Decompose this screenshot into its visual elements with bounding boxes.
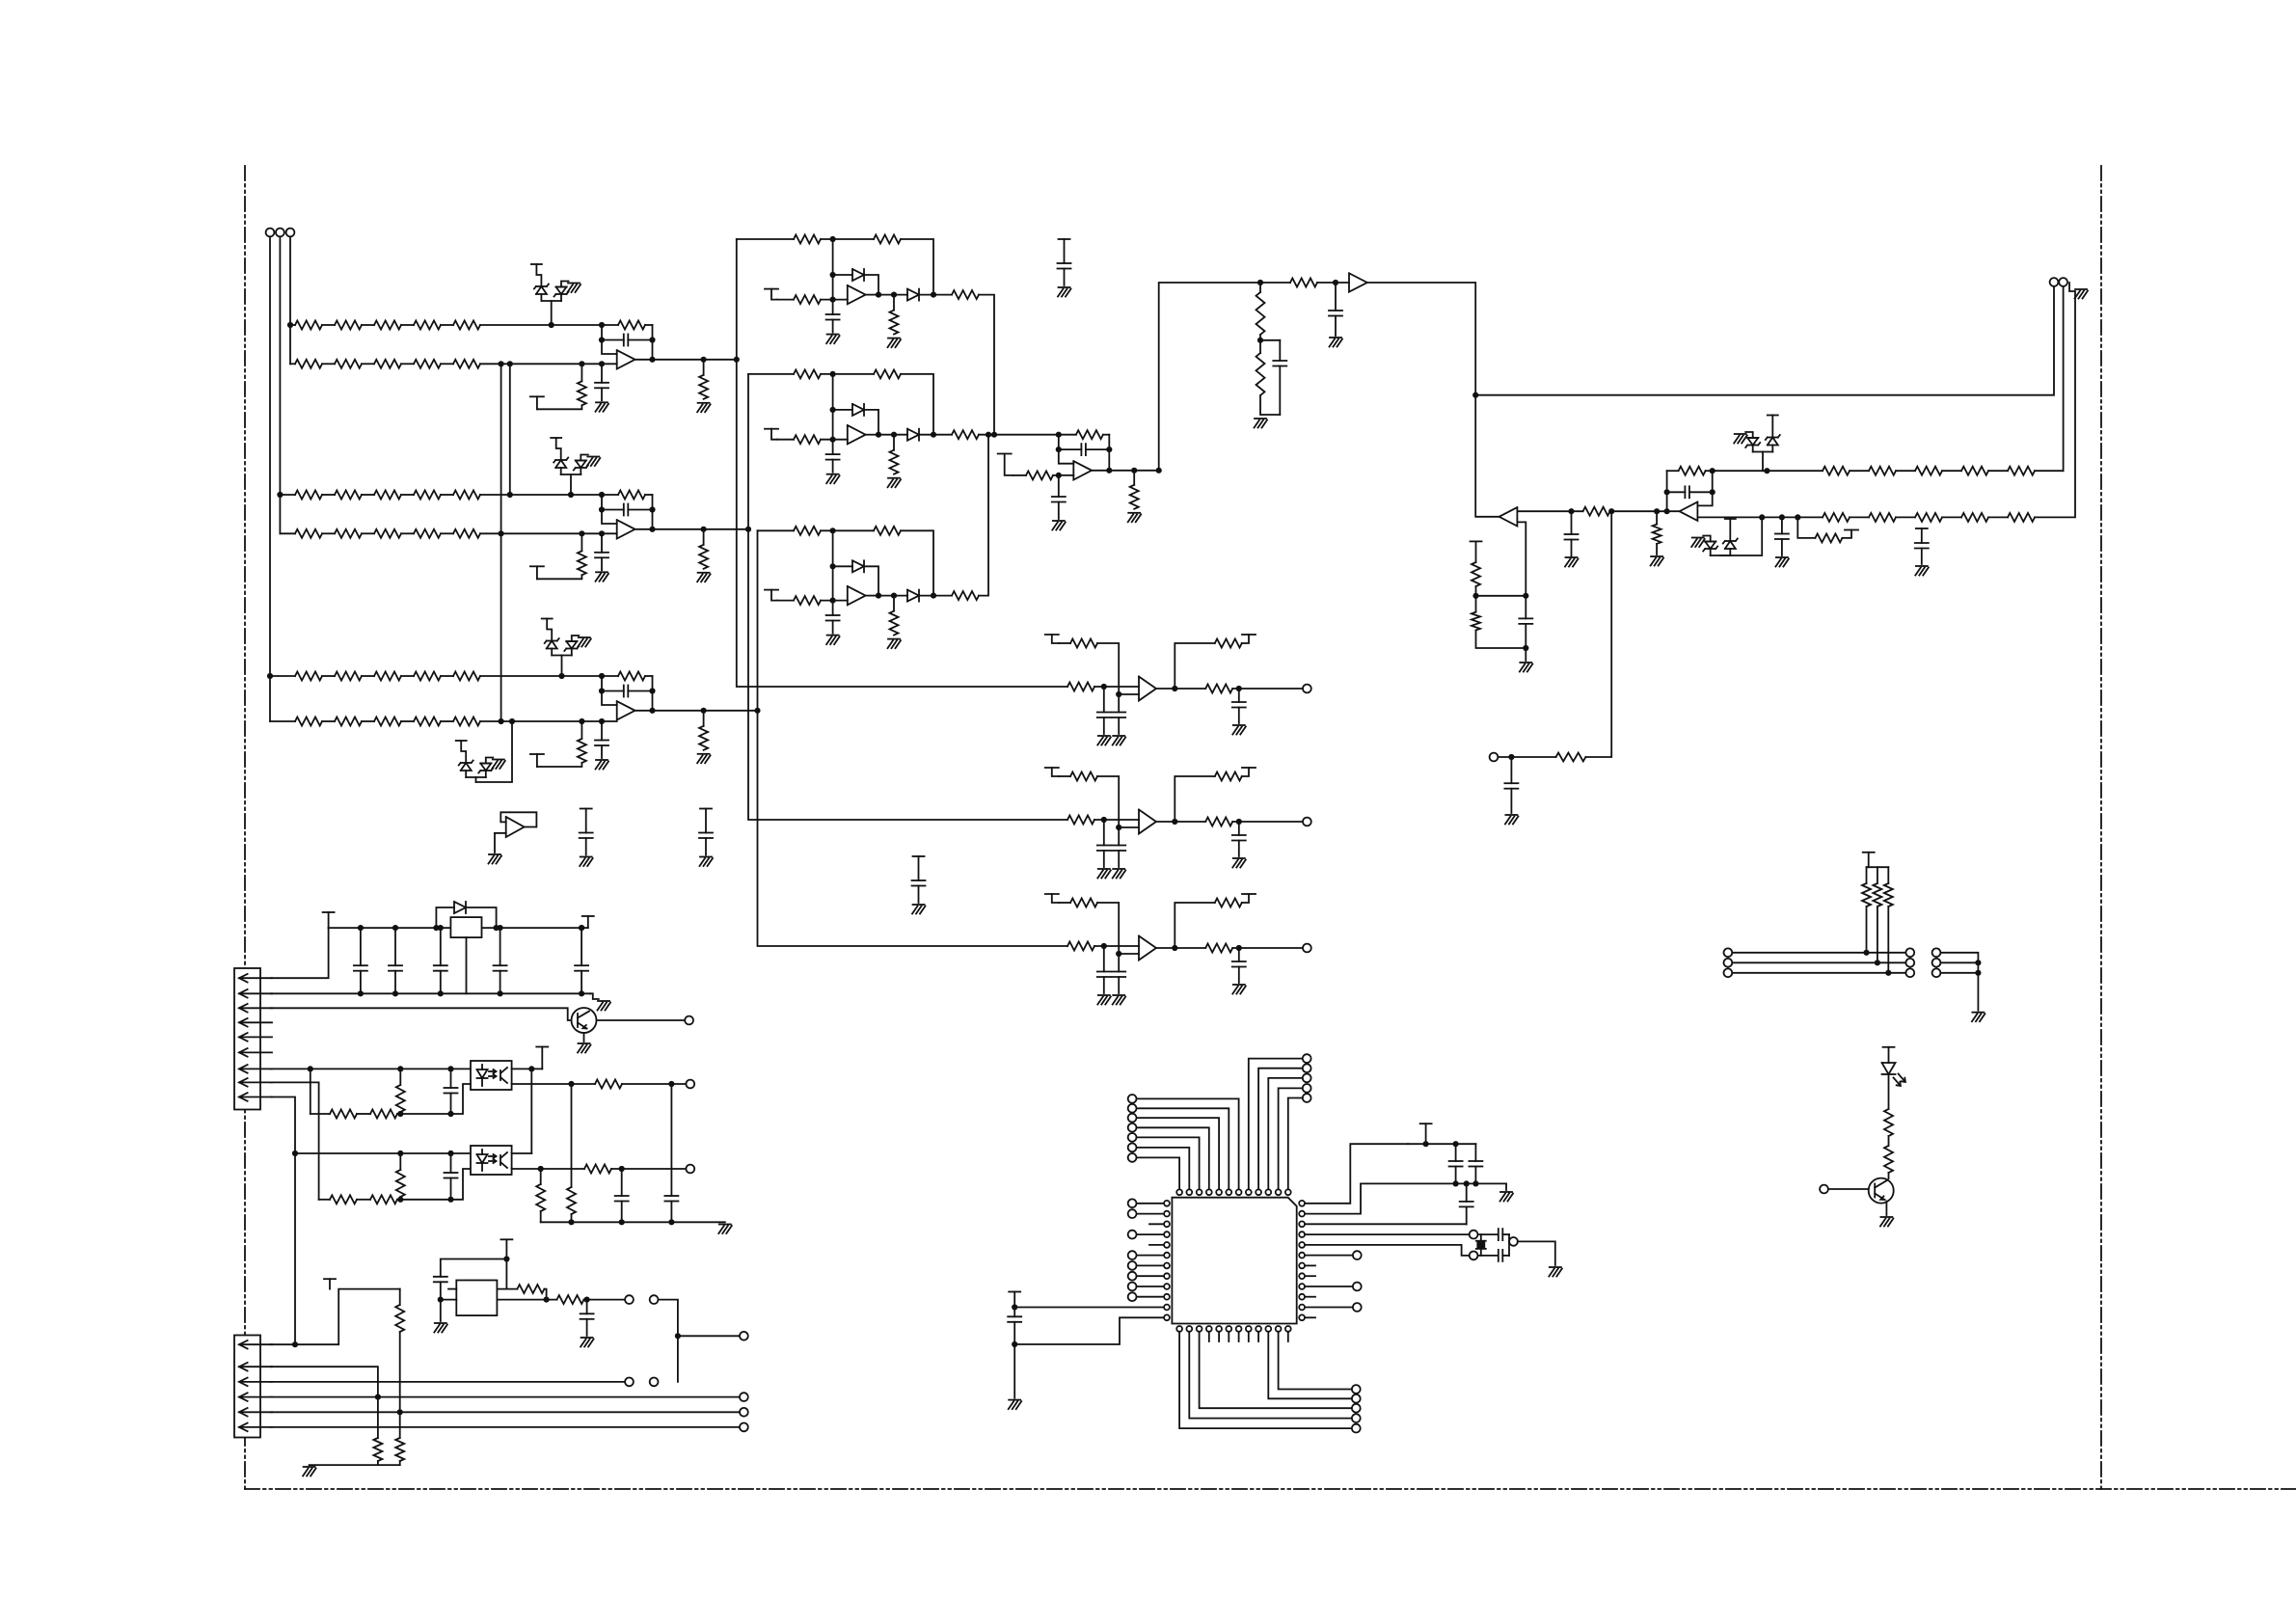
junction rail OC1 cap <box>668 1219 674 1225</box>
power tick cap1 <box>581 809 592 833</box>
wire OC1 pd drop b <box>571 1214 573 1222</box>
wire stage3 output <box>635 710 652 712</box>
terminal U1 left 6 <box>1128 1251 1137 1259</box>
connector J1 pin 2 arrow <box>239 989 272 998</box>
terminal OC2 output <box>686 1165 694 1174</box>
U1 bottom pin 5 <box>1216 1326 1222 1332</box>
junction stage3 fb output <box>649 708 655 714</box>
wire output net long <box>1475 286 2054 395</box>
junction rail1 cap4 <box>498 925 503 931</box>
resistor OC1 out pulldown <box>567 1187 576 1214</box>
wire U1 bottom pin 7 stub <box>1238 1332 1240 1341</box>
wire Q2 emitter <box>1885 1202 1887 1216</box>
output terminal comparator2 <box>1303 818 1311 826</box>
capacitor power rail C5 <box>575 928 588 993</box>
capacitor comparator1 input B <box>1112 694 1125 734</box>
wire rectifier2 rail right <box>901 374 933 435</box>
junction OC2 cap bottom <box>447 1197 453 1203</box>
capacitor comparator2 output <box>1232 822 1246 856</box>
wire J2 pda bot <box>399 1461 401 1465</box>
wire rectifier2 input lead a <box>777 439 794 441</box>
junction bus C stage3 out <box>754 708 760 714</box>
U1 bottom pin 4 <box>1206 1326 1212 1332</box>
capacitor stage1 input <box>595 364 608 400</box>
terminal rowC <box>740 1408 748 1417</box>
wire J2 p2 down <box>377 1397 379 1438</box>
resistor LED R1 <box>1884 1109 1893 1136</box>
junction comparator3 out cap <box>1236 945 1242 951</box>
wire rectifier1 rail mid <box>821 238 874 240</box>
wire J2 pin4 row <box>271 1396 740 1398</box>
ground Q2 <box>1880 1217 1894 1227</box>
junction buffer divider tap <box>1257 280 1263 285</box>
connector J1 <box>234 968 260 1110</box>
terminal U1 bottom 10 <box>1352 1394 1361 1403</box>
wire U1 r2 <box>1306 1183 1507 1213</box>
junction L2 fb cap L <box>1664 489 1670 495</box>
capacitor crystal load A <box>1499 1229 1503 1240</box>
terminal row3 left <box>1724 968 1733 977</box>
junction stage1 RC node <box>579 361 584 366</box>
resistor rectifier1 rail B <box>874 235 901 244</box>
junction rectifier1 load <box>891 292 897 298</box>
power tick REG2 <box>500 1239 512 1288</box>
resistor rectifier2 output <box>952 430 979 439</box>
junction rail2 cap2 <box>392 990 398 996</box>
terminal U1 bottom 11 <box>1352 1385 1361 1394</box>
resistor stage1 to stub <box>578 381 586 405</box>
ground cap4 <box>1058 287 1071 297</box>
wire L2 load lead a <box>1656 511 1658 524</box>
border frame bottom chain line <box>245 1488 2296 1490</box>
TVS diode pair stage2 ground <box>587 457 601 467</box>
TVS diode pair stage1 <box>531 264 569 325</box>
wire U1 bottom pin 5 stub <box>1218 1332 1220 1341</box>
wire J1 pin7 row <box>271 1068 471 1069</box>
wire stage3 output to bus C <box>704 710 758 712</box>
wire L1 div lead3 <box>1476 631 1526 649</box>
wire OC1 cap drop <box>670 1084 672 1196</box>
wire J1 pin3 to Q1 base <box>271 1008 572 1020</box>
wire U1 r11 <box>1306 1307 1353 1309</box>
wire stage2 row1 seg4 <box>441 494 453 496</box>
terminal U1 top 2 <box>1128 1144 1137 1152</box>
resistor row2 chain R5 <box>2008 513 2035 522</box>
junction stage2 feedback node A <box>599 492 605 498</box>
terminal crystal out <box>1509 1237 1518 1246</box>
capacitor L2 feedback <box>1667 486 1713 498</box>
wire REG2 left top stub <box>448 1288 456 1290</box>
resistor rectifier1 load <box>890 311 899 335</box>
resistor comparator1 pullup <box>1070 639 1097 648</box>
wire OC1 lower lead <box>311 1113 330 1115</box>
wire bus A <box>737 239 1067 687</box>
wire comparator3 output b <box>1232 947 1303 949</box>
wire REG2 jumper link <box>659 1300 678 1382</box>
U1 top pin 3 <box>1197 1189 1202 1195</box>
capacitor summing input <box>1052 475 1066 519</box>
wire stage1 fb node down <box>602 325 617 354</box>
wire pullup 3 drop <box>1887 907 1889 973</box>
resistor stage3 row2 R2 <box>335 717 362 726</box>
wire comparator1 pullup lead <box>1059 642 1070 644</box>
junction stage3 row2 TVS riser <box>509 718 515 724</box>
U1 left pin 12 <box>1164 1314 1170 1320</box>
wire bus stage row2 link A <box>500 364 502 721</box>
wire rectifier3 out a <box>866 595 878 597</box>
wire rectifier3 diode to output <box>864 566 878 595</box>
resistor rectifier3 rail B <box>874 527 901 535</box>
wire U1 r5 <box>1306 1245 1470 1256</box>
resistor buffer input <box>1290 279 1317 287</box>
junction stage1 fb output <box>649 357 655 363</box>
wire stage2 row1 lead <box>280 494 295 496</box>
ground rectifier1 load <box>888 338 902 348</box>
junction OC2 pd bottom <box>397 1197 403 1203</box>
junction stage3 fb cap left <box>599 688 605 693</box>
op-amp comparator2 <box>1139 810 1156 834</box>
TVS diode pair L2 upper <box>1745 416 1780 472</box>
wire row1 chain seg1 <box>1850 470 1869 472</box>
wire L1 div gnd lead <box>1525 648 1526 661</box>
wire opto ground rail <box>541 1221 725 1223</box>
wire L2 fb left <box>1666 471 1668 511</box>
wire LED R2 to Q2 <box>1888 1173 1890 1178</box>
junction comparator2 lower input <box>1116 825 1121 830</box>
capacitor buffer divider <box>1273 340 1286 415</box>
U1 right pin 10 <box>1299 1294 1305 1300</box>
wire rectifier3 rail right <box>901 530 933 595</box>
U1 left pin 4 <box>1164 1232 1170 1237</box>
wire buffer output <box>1367 283 1475 395</box>
junction rectifier2 load <box>891 432 897 438</box>
wire crystal row2 <box>1478 1255 1498 1257</box>
junction summing fb node <box>1056 432 1062 438</box>
resistor rectifier3 output <box>952 591 979 600</box>
wire stage1 row1 seg4 <box>441 324 453 326</box>
wire J2 pin1 <box>271 1289 400 1345</box>
ground rectifier1 input cap <box>826 335 840 344</box>
junction summing output fb <box>1106 468 1112 474</box>
wire U1 bottom pin 3 <box>1200 1332 1352 1408</box>
terminal U1 top 12 <box>1303 1094 1311 1102</box>
wire rectifier3 out to summing <box>979 435 988 596</box>
ground comparator3 cap B <box>1113 995 1126 1005</box>
wire row1 chain end <box>2035 470 2064 472</box>
resistor LED R2 <box>1884 1146 1893 1173</box>
resistor stage2 to stub <box>578 551 586 575</box>
wire row1 chain seg2 <box>1896 470 1915 472</box>
U1 bottom pin 9 <box>1256 1326 1261 1332</box>
capacitor power rail C1 <box>354 928 367 993</box>
terminal U1 top 6 <box>1128 1104 1137 1113</box>
resistor stage2 row2 R5 <box>453 529 480 538</box>
wire stage2 row1 to feedback node <box>480 494 602 496</box>
connector J2 pin 6 arrow <box>239 1423 272 1432</box>
junction buffer divider mid <box>1257 338 1263 343</box>
junction comparator3 lower input <box>1116 951 1121 957</box>
wire stage1 row2 to op-amp <box>480 363 617 365</box>
junction g2 row2 <box>1975 960 1981 965</box>
U1 left pin 11 <box>1164 1305 1170 1311</box>
wire U1 r3 <box>1306 1223 1467 1225</box>
wire rectifier1 F down <box>832 239 834 300</box>
ground comparator2 cap B <box>1113 869 1126 879</box>
junction stage1 fb cap right <box>649 337 655 342</box>
wire L1 row <box>1517 510 1582 512</box>
wire stage1 row2 lead <box>290 363 295 365</box>
wire stage1 fb to output <box>652 325 654 360</box>
wire U1 r4 <box>1306 1233 1470 1235</box>
resistor summing feedback <box>1076 430 1103 439</box>
ground power rail2 <box>598 1001 611 1011</box>
wire rectifier3 load lead <box>893 596 895 611</box>
wire signal row 1 <box>1732 952 1905 954</box>
U1 right pin 11 <box>1299 1305 1305 1311</box>
junction stage2 cap node <box>599 530 605 536</box>
connector J1 pin 1 arrow <box>239 974 272 983</box>
op-amp buffer <box>1349 273 1367 291</box>
crystal X1 <box>1476 1234 1486 1256</box>
wire OC1 output b <box>622 1083 686 1085</box>
resistor pullup 3 <box>1884 883 1893 907</box>
wire J1 pin8 jog <box>271 1082 319 1199</box>
wire comparator3 out pullup riser <box>1175 903 1215 948</box>
wire stage1 row2 seg3 <box>401 363 414 365</box>
resistor stage2 row1 R4 <box>414 491 441 500</box>
wire rail2 gnd jog <box>590 993 599 999</box>
terminal mix out <box>740 1332 748 1340</box>
junction rectifier3 diode output <box>876 593 881 599</box>
wire OC1 pd leads b <box>399 1112 401 1114</box>
op-amp follower with feedback box <box>500 812 536 837</box>
wire comparator2 output b <box>1232 821 1303 823</box>
resistor stage1 row2 R4 <box>414 360 441 368</box>
TVS diode pair L2 upper ground <box>1734 434 1747 444</box>
junction stage2 RC node <box>579 530 584 536</box>
junction rectifier2 diode tap <box>830 407 836 413</box>
terminal crystal row1 <box>1470 1231 1478 1239</box>
wire comparator2 pullup to input <box>1097 776 1139 827</box>
wire crystal out stub <box>1509 1240 1510 1242</box>
wire Q1 emitter <box>583 1033 585 1042</box>
wire stage3 row2 seg4 <box>441 720 453 722</box>
terminal g2 row3 <box>1932 968 1941 977</box>
transistor Q2 <box>1869 1178 1894 1204</box>
wire OC link vertical <box>530 1069 532 1153</box>
junction comparator2 out pullup <box>1172 819 1177 825</box>
wire stage3 output 2 <box>653 710 704 712</box>
capacitor power rail C2 <box>389 928 402 993</box>
U1 bottom pin 3 <box>1197 1326 1202 1332</box>
capacitor power rail C4 <box>494 928 507 993</box>
wire U1 left pin 3 stub <box>1149 1223 1164 1225</box>
op-amp stage3 <box>617 701 635 719</box>
capacitor comparator2 input B <box>1112 827 1125 867</box>
junction rectifier1 F <box>830 236 836 242</box>
jumper terminal REG2 b <box>650 1295 659 1304</box>
wire stage3 RC lead <box>581 721 582 739</box>
wire stage2 row2 seg3 <box>401 532 414 534</box>
diode rectifier1 output <box>907 289 919 301</box>
junction J2 rowB tap <box>375 1394 381 1400</box>
resistor stage3 row1 R3 <box>374 672 401 681</box>
U1 right pin 6 <box>1299 1253 1305 1259</box>
U1 left pin 9 <box>1164 1284 1170 1289</box>
TVS diode pair stage3 lower <box>456 741 494 782</box>
junction stage3 TVS row1 <box>558 673 564 679</box>
wire rectifier3 F down <box>832 530 834 600</box>
wire stage3 row1 seg2 <box>362 675 374 677</box>
op-amp rectifier2 <box>848 425 866 444</box>
junction rail1 cap2 <box>392 925 398 931</box>
capacitor rectifier1 input <box>826 300 840 333</box>
wire rectifier2 load lead <box>893 435 895 450</box>
capacitor stage2 input <box>595 533 608 570</box>
junction rectifier3 load <box>891 593 897 599</box>
resistor stage1 row1 R2 <box>335 321 362 330</box>
wire U1 cap rail <box>1408 1143 1475 1145</box>
junction rail1 end <box>579 925 584 931</box>
junction REG2 out <box>544 1297 550 1303</box>
wire U1 top pin 5 <box>1137 1118 1220 1189</box>
U1 right pin 2 <box>1299 1211 1305 1217</box>
resistor OC2 series B <box>370 1195 397 1204</box>
resistor stage3 row1 R1 <box>295 672 322 681</box>
resistor row1 chain R3 <box>1915 467 1942 475</box>
wire comparator2 input <box>1094 819 1139 821</box>
resistor row1 chain R5 <box>2008 467 2035 475</box>
wire bus C <box>758 530 1068 946</box>
wire stage1 row1 lead <box>290 324 295 326</box>
wire REG2 out bot <box>497 1299 556 1301</box>
wire rectifier2 F down <box>832 374 834 440</box>
wire U1 bottom pin 8 stub <box>1248 1332 1250 1341</box>
op-amp L2 <box>1680 502 1698 521</box>
U1 bottom pin 6 <box>1226 1326 1231 1332</box>
wire power rail2 <box>271 992 590 994</box>
wire U1 top pin 11 <box>1279 1088 1303 1189</box>
wire signal row 3 <box>1732 972 1905 974</box>
op-amp rectifier1 <box>848 285 866 304</box>
wire J1 pin1 to rail <box>271 928 329 978</box>
wire OC2 lower to cathode <box>397 1169 471 1200</box>
wire rectifier1 load lead <box>893 295 895 311</box>
wire stage2 row2 seg4 <box>441 532 453 534</box>
wire L1 branch down <box>1585 511 1611 757</box>
wire stage2 row2 seg1 <box>322 532 335 534</box>
wire U1 bottom pin 6 stub <box>1228 1332 1229 1341</box>
junction J2 rowC tap <box>397 1409 403 1415</box>
wire REG2 cap link <box>441 1259 507 1277</box>
junction stage3 fb cap right <box>649 688 655 693</box>
ground follower <box>489 854 502 864</box>
ground U1 caps <box>1500 1192 1514 1202</box>
power tick rail1 right <box>582 916 594 928</box>
capacitor summing feedback <box>1059 444 1110 455</box>
capacitor OC2 <box>445 1153 458 1200</box>
junction lower rail a <box>1453 1180 1459 1186</box>
resistor stage2 feedback <box>618 491 645 500</box>
wire J2 pua bot <box>399 1332 401 1438</box>
wire U1 top pin 1 <box>1137 1157 1180 1189</box>
junction stage3 output load <box>701 708 707 714</box>
wire stage1 RC lead <box>581 364 582 381</box>
resistor summing load <box>1130 485 1139 509</box>
wire g2 row3 <box>1940 972 1978 974</box>
resistor L1 divider upper <box>1472 562 1480 586</box>
terminal U1 bottom 1 <box>1352 1424 1361 1433</box>
junction OC1 row a <box>308 1066 313 1071</box>
junction comparator2 out cap <box>1236 819 1242 825</box>
junction OC1 out pd <box>568 1081 574 1087</box>
resistor row2 stub <box>1815 533 1842 542</box>
op-amp summing <box>1073 461 1092 479</box>
resistor stage3 row2 R1 <box>295 717 322 726</box>
capacitor comparator1 output <box>1232 689 1246 723</box>
wire U1 bottom pin 2 <box>1189 1332 1352 1418</box>
capacitor stage1 feedback <box>602 335 653 346</box>
junction rectifier3 diode tap <box>830 563 836 569</box>
wire summing stub <box>1013 474 1026 476</box>
wire summing riser <box>1159 283 1260 471</box>
ground U1 cap block <box>1009 1400 1022 1410</box>
U1 bottom pin 7 <box>1236 1326 1242 1332</box>
U1 left pin 3 <box>1164 1221 1170 1227</box>
junction L1 div node b <box>1523 593 1528 599</box>
resistor stage1 row1 R4 <box>414 321 441 330</box>
ground branch cap <box>1505 815 1519 825</box>
U1 right pin 7 <box>1299 1263 1305 1269</box>
resistor OC2 pulldown <box>396 1170 405 1197</box>
wire rectifier2 out c <box>919 434 952 436</box>
resistor OC2 series A <box>330 1195 357 1204</box>
junction rail OC2 cap <box>619 1219 625 1225</box>
wire U1 left pin 9 <box>1137 1286 1164 1287</box>
wire Q1 collector <box>597 1019 686 1021</box>
ground comparator2 cap A <box>1097 869 1111 879</box>
U1 top pin 12 <box>1285 1189 1291 1195</box>
U1 bottom pin 10 <box>1265 1326 1271 1332</box>
junction rectifier1 diode output <box>876 292 881 298</box>
wire U1 left pin 11 <box>1014 1307 1163 1309</box>
wire OC1 lower seg <box>357 1113 370 1115</box>
U1 top pin 10 <box>1265 1189 1271 1195</box>
junction cap rail b <box>1453 1141 1459 1147</box>
wire summing B down <box>1108 435 1110 471</box>
wire OC2 pd leads b <box>399 1197 401 1200</box>
ground comparator3 out cap <box>1232 985 1246 994</box>
capacitor comparator3 output <box>1232 948 1246 983</box>
wire stage2 row1 seg3 <box>401 494 414 496</box>
connector J2 pin 2 arrow <box>239 1363 272 1371</box>
U1 bottom pin 12 <box>1285 1326 1291 1332</box>
terminal U1 top 1 <box>1128 1153 1137 1162</box>
resistor stage1 row2 R2 <box>335 360 362 368</box>
resistor J2 pulldown A <box>395 1438 404 1461</box>
capacitor crystal load B <box>1499 1250 1503 1261</box>
diode rectifier3 output <box>907 590 919 602</box>
wire L1 div lead2 <box>1475 596 1477 612</box>
ground stage1 output load <box>697 403 711 413</box>
wire OC2 input row <box>295 1152 471 1154</box>
wire U1 top pin 8 <box>1249 1059 1303 1189</box>
junction L2 row1 TVS <box>1764 468 1769 474</box>
junction lower rail c <box>1472 1180 1478 1186</box>
wire J1 pin9 jog <box>271 1097 295 1345</box>
TVS diode pair stage1 ground <box>568 284 581 293</box>
ground summing input cap <box>1052 521 1066 530</box>
